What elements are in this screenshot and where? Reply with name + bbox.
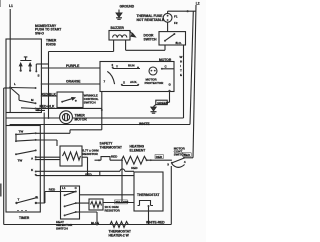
svg-text:I: I bbox=[180, 64, 181, 68]
svg-text:PURPLE: PURPLE bbox=[66, 64, 80, 68]
svg-text:RUN: RUN bbox=[128, 63, 135, 67]
svg-text:RESISTOR: RESISTOR bbox=[83, 152, 99, 156]
svg-text:L: L bbox=[14, 82, 16, 86]
svg-text:PROTECTOR: PROTECTOR bbox=[145, 81, 165, 85]
svg-text:SWITCH: SWITCH bbox=[144, 37, 158, 41]
svg-text:KNOB: KNOB bbox=[46, 42, 56, 46]
svg-text:F2: F2 bbox=[174, 21, 178, 25]
svg-text:HEATER-2 W: HEATER-2 W bbox=[109, 233, 130, 237]
svg-text:YELLOW: YELLOW bbox=[115, 200, 128, 204]
svg-text:ELEMENT: ELEMENT bbox=[130, 148, 146, 152]
svg-text:WHITE-RED: WHITE-RED bbox=[146, 221, 165, 225]
svg-text:TW: TW bbox=[18, 158, 23, 162]
svg-text:Y: Y bbox=[116, 65, 118, 69]
svg-text:GREEN: GREEN bbox=[157, 101, 168, 105]
svg-text:ORANGE: ORANGE bbox=[66, 80, 81, 84]
svg-text:MOTOR: MOTOR bbox=[159, 58, 172, 62]
svg-text:L1: L1 bbox=[9, 4, 13, 8]
svg-text:S: S bbox=[38, 74, 40, 78]
svg-text:H: H bbox=[180, 60, 182, 64]
svg-text:MOTOR: MOTOR bbox=[75, 117, 88, 121]
svg-text:NOT RESETABLE: NOT RESETABLE bbox=[137, 18, 165, 22]
svg-text:N.O.: N.O. bbox=[176, 41, 182, 45]
svg-text:THERMOSTAT: THERMOSTAT bbox=[137, 193, 159, 197]
svg-text:RED-BLK: RED-BLK bbox=[40, 104, 55, 108]
svg-text:SWITCH: SWITCH bbox=[84, 101, 96, 105]
svg-text:SWITCH: SWITCH bbox=[56, 226, 68, 230]
svg-text:THERMOSTAT: THERMOSTAT bbox=[100, 145, 122, 149]
svg-text:TW: TW bbox=[19, 130, 24, 134]
svg-text:X: X bbox=[123, 81, 125, 85]
svg-text:SW-O: SW-O bbox=[35, 31, 44, 35]
svg-text:TIMER: TIMER bbox=[19, 216, 30, 220]
svg-text:GROUND: GROUND bbox=[120, 5, 135, 9]
svg-text:RED: RED bbox=[111, 154, 118, 158]
svg-text:RED: RED bbox=[49, 188, 56, 192]
svg-text:L2: L2 bbox=[196, 1, 200, 5]
svg-text:WHITE: WHITE bbox=[139, 122, 150, 126]
svg-text:T: T bbox=[180, 69, 182, 73]
svg-text:RED: RED bbox=[156, 155, 163, 159]
svg-text:BLUE: BLUE bbox=[91, 221, 99, 225]
svg-text:T: T bbox=[18, 198, 20, 202]
svg-text:W: W bbox=[37, 108, 40, 112]
svg-text:AUX.: AUX. bbox=[130, 80, 137, 84]
svg-text:E: E bbox=[180, 73, 182, 77]
svg-text:RED: RED bbox=[131, 166, 138, 170]
svg-text:W: W bbox=[180, 55, 183, 59]
svg-text:F1: F1 bbox=[174, 15, 178, 19]
svg-text:RESISTOR: RESISTOR bbox=[105, 209, 121, 213]
svg-text:SWITCH: SWITCH bbox=[174, 152, 186, 156]
svg-text:L1: L1 bbox=[62, 186, 66, 190]
svg-text:BUZZER: BUZZER bbox=[111, 26, 125, 30]
svg-text:RED: RED bbox=[85, 172, 92, 176]
svg-text:RED-BLK: RED-BLK bbox=[41, 92, 56, 96]
